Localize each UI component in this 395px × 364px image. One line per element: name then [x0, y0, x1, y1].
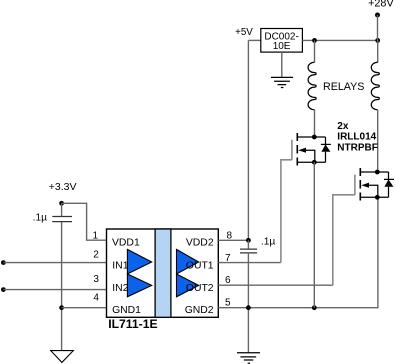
svg-text:+3.3V: +3.3V	[49, 181, 77, 193]
svg-text:2x: 2x	[337, 121, 349, 132]
svg-text:VDD2: VDD2	[186, 237, 214, 248]
svg-text:IRLL014: IRLL014	[337, 132, 376, 143]
svg-text:GND1: GND1	[112, 305, 141, 316]
svg-text:.1µ: .1µ	[33, 213, 47, 224]
svg-text:2: 2	[93, 250, 99, 261]
svg-text:IL711-1E: IL711-1E	[108, 317, 157, 331]
svg-text:OUT1: OUT1	[186, 261, 214, 272]
svg-text:+28V: +28V	[368, 0, 394, 9]
svg-text:3: 3	[93, 274, 99, 285]
svg-text:1: 1	[93, 231, 99, 242]
svg-text:OUT2: OUT2	[186, 283, 214, 294]
svg-text:4: 4	[93, 293, 99, 304]
svg-text:GND2: GND2	[185, 305, 214, 316]
svg-text:RELAYS: RELAYS	[323, 81, 364, 93]
svg-text:IN1: IN1	[112, 261, 128, 272]
svg-text:+5V: +5V	[235, 27, 253, 38]
svg-text:VDD1: VDD1	[112, 237, 140, 248]
svg-text:.1µ: .1µ	[261, 236, 275, 247]
svg-text:10E: 10E	[273, 41, 291, 52]
svg-text:IN2: IN2	[112, 283, 128, 294]
svg-text:5: 5	[225, 298, 231, 309]
svg-text:NTRPBF: NTRPBF	[337, 142, 378, 153]
